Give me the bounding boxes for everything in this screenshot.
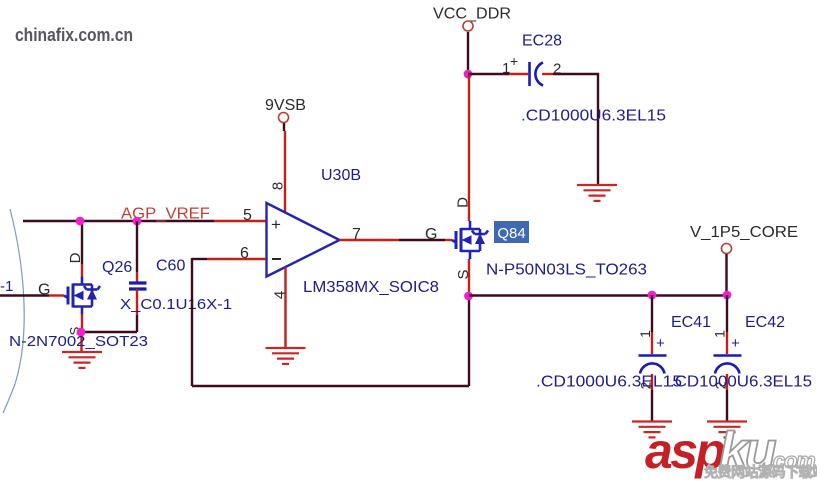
svg-text:5: 5 <box>243 207 252 224</box>
svg-text:U30B: U30B <box>321 167 361 184</box>
wire C60 bottom dark <box>136 315 138 332</box>
node junction EC41 <box>648 291 657 300</box>
designator Q84 highlighted box <box>494 221 529 243</box>
svg-text:4: 4 <box>272 291 289 299</box>
ground EC42 <box>707 422 747 438</box>
wire 9VSB dark stub <box>283 123 285 131</box>
svg-text:V_1P5_CORE: V_1P5_CORE <box>690 224 798 241</box>
wire EC42 top red <box>726 332 728 354</box>
wire EC28 red right <box>542 73 553 75</box>
wire AGP_VREF net dark segment <box>23 220 214 222</box>
svg-text:D: D <box>455 197 472 208</box>
svg-text:+: + <box>656 335 665 352</box>
svg-text:.CD1000U6.3EL15: .CD1000U6.3EL15 <box>521 108 666 125</box>
svg-text:N-2N7002_SOT23: N-2N7002_SOT23 <box>9 333 148 350</box>
wire main rail dark <box>469 294 727 296</box>
capacitor C60 plates <box>129 283 147 289</box>
wire C60 top red <box>136 272 138 282</box>
wire Q84 source red <box>468 259 470 296</box>
svg-text:1: 1 <box>712 330 728 338</box>
svg-text:+: + <box>731 335 740 352</box>
capacitor EC42 plates <box>714 354 742 357</box>
svg-text:G: G <box>38 282 50 299</box>
svg-text:.CD1000U6.3EL15: .CD1000U6.3EL15 <box>670 374 812 391</box>
svg-text:chinafix.com.cn: chinafix.com.cn <box>15 25 133 45</box>
svg-text:D: D <box>67 252 84 263</box>
svg-text:EC28: EC28 <box>522 33 562 50</box>
capacitor EC41 plates <box>639 354 667 357</box>
wire EC42 bottom red <box>726 374 728 390</box>
wire Q26 source to ground red <box>80 332 82 352</box>
wire Q26 source red <box>81 314 83 332</box>
transistor Q26 <box>64 277 100 315</box>
wire pin 4 red <box>284 267 286 348</box>
svg-text:+: + <box>271 215 281 234</box>
wire Q26 drain dark <box>81 221 83 264</box>
svg-text:8: 8 <box>270 182 287 190</box>
wire pin 6 corner dark <box>192 258 207 260</box>
wire V_1P5_CORE stub dark <box>725 254 727 295</box>
node junction VCC_DDR <box>464 70 473 79</box>
svg-text:6: 6 <box>240 245 249 262</box>
wire gate net Q26 dark <box>0 294 49 296</box>
ground EC41 <box>632 422 672 438</box>
node junction AGP_VREF / C60 <box>133 217 142 226</box>
svg-text:X_C0.1U16X-1: X_C0.1U16X-1 <box>120 296 232 313</box>
transistor Q84 <box>452 221 488 259</box>
node junction EC42 / V_1P5_CORE <box>723 291 732 300</box>
wire pin 6 red <box>207 258 266 260</box>
svg-text:Q84: Q84 <box>497 225 525 242</box>
wire VCC_DDR stub dark <box>467 32 469 74</box>
op-amp U30B <box>267 203 340 277</box>
svg-text:C60: C60 <box>156 258 185 275</box>
svg-text:N-P50N03LS_TO263: N-P50N03LS_TO263 <box>486 262 647 279</box>
ground Q26 <box>62 352 102 368</box>
svg-text:+: + <box>510 53 518 69</box>
wire feedback left vertical <box>191 258 193 386</box>
svg-text:1: 1 <box>637 330 653 338</box>
wire C60 bottom to Q26 source dark <box>82 331 137 333</box>
wire C60 bottom red <box>136 289 138 315</box>
svg-text:VCC_DDR: VCC_DDR <box>433 6 511 23</box>
wire feedback bottom horizontal <box>192 385 469 387</box>
wire Q84 drain red <box>468 74 470 221</box>
wire Q84 gate red stub <box>445 239 452 241</box>
svg-text:EC42: EC42 <box>745 314 785 331</box>
wire feedback right vertical <box>468 297 470 386</box>
blue arc (partial circle, left edge) <box>3 209 24 413</box>
wire EC41 top dark <box>651 295 653 332</box>
wire EC28 red left <box>509 73 528 75</box>
svg-text:2: 2 <box>553 61 561 78</box>
ground EC28 <box>577 185 617 201</box>
capacitor EC28 plates <box>528 62 531 86</box>
wire EC42 bottom dark <box>726 390 728 421</box>
svg-text:7: 7 <box>352 226 361 243</box>
wire pin 7 output red <box>340 239 399 241</box>
svg-text:.CD1000U6.3EL15: .CD1000U6.3EL15 <box>536 374 682 391</box>
node junction Q84 source <box>464 292 473 301</box>
wire pin 7 output dark <box>399 239 445 241</box>
svg-text:Q26: Q26 <box>102 259 132 276</box>
svg-text:G: G <box>425 226 437 243</box>
svg-text:EC41: EC41 <box>671 314 711 331</box>
wire EC41 bottom dark <box>651 390 653 421</box>
svg-text:LM358MX_SOIC8: LM358MX_SOIC8 <box>303 279 439 296</box>
svg-text:9VSB: 9VSB <box>265 97 306 114</box>
wire EC41 bottom red <box>651 374 653 390</box>
ground op-amp <box>266 348 306 364</box>
wire EC28 dark right + down <box>553 74 598 185</box>
wire Q26 drain red <box>81 264 83 277</box>
wire gate net Q26 red <box>49 294 64 296</box>
node junction Q26 source <box>77 328 86 337</box>
wire EC42 top dark <box>726 295 728 332</box>
node junction AGP_VREF / Q26 drain <box>76 217 85 226</box>
wire AGP_VREF net red segment to pin 5 <box>214 220 266 222</box>
wire C60 top dark <box>136 221 138 272</box>
svg-text:-1: -1 <box>0 278 13 295</box>
wire pin 8 red <box>284 131 286 213</box>
wire EC41 top red <box>651 332 653 354</box>
capacitor EC28 wires: dark left <box>468 73 509 75</box>
